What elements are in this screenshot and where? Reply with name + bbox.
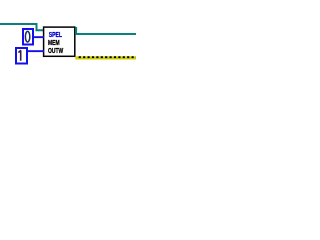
constant 0 box — [23, 29, 33, 45]
wire error cluster (yellow/black dashed) — [75, 56, 136, 59]
wire blue from constant 1 — [27, 50, 44, 52]
svg-text:OUTW: OUTW — [48, 48, 63, 55]
node U1 SPEL MEM OUTW (subVI box) — [44, 27, 75, 56]
digit 1 — [18, 50, 21, 61]
svg-text:SPEL: SPEL — [49, 32, 63, 39]
wire teal output (right) — [76, 27, 136, 34]
background — [0, 0, 136, 89]
svg-text:MEM: MEM — [48, 40, 60, 47]
digit 0 — [25, 31, 29, 42]
constant 1 box — [16, 48, 27, 64]
wire teal input (left string wire into node) — [0, 24, 44, 30]
wire blue from constant 0 — [33, 36, 44, 38]
